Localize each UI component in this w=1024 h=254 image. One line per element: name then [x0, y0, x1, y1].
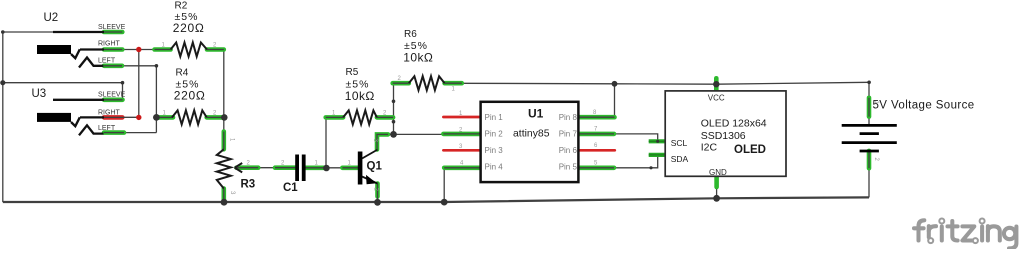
svg-text:Pin 7: Pin 7	[559, 130, 578, 139]
svg-text:Pin 2: Pin 2	[485, 130, 504, 139]
svg-text:Q1: Q1	[367, 161, 383, 173]
svg-text:LEFT: LEFT	[98, 125, 116, 132]
svg-text:RIGHT: RIGHT	[98, 40, 121, 47]
svg-text:LEFT: LEFT	[98, 57, 116, 64]
svg-text:SDA: SDA	[671, 154, 689, 164]
svg-text:U1: U1	[528, 107, 544, 121]
svg-text:attiny85: attiny85	[513, 128, 550, 140]
svg-text:RIGHT: RIGHT	[98, 110, 121, 117]
svg-text:Pin 8: Pin 8	[559, 113, 578, 122]
svg-text:R4: R4	[176, 68, 189, 79]
svg-text:220Ω: 220Ω	[173, 21, 205, 35]
svg-text:SSD1306: SSD1306	[701, 130, 746, 142]
svg-text:R3: R3	[241, 179, 256, 191]
svg-text:SCL: SCL	[671, 138, 688, 148]
svg-text:GND: GND	[709, 168, 727, 177]
svg-text:10kΩ: 10kΩ	[345, 89, 375, 103]
svg-text:VCC: VCC	[708, 93, 725, 102]
svg-text:SLEEVE: SLEEVE	[98, 91, 126, 98]
svg-text:SLEEVE: SLEEVE	[98, 24, 126, 31]
svg-text:5V Voltage Source: 5V Voltage Source	[873, 99, 975, 111]
svg-text:R6: R6	[404, 29, 417, 40]
svg-text:Pin 4: Pin 4	[485, 163, 504, 172]
svg-text:Pin 1: Pin 1	[485, 113, 504, 122]
svg-text:Pin 3: Pin 3	[485, 146, 504, 155]
svg-text:R2: R2	[175, 1, 188, 12]
svg-text:220Ω: 220Ω	[174, 89, 206, 103]
svg-text:C1: C1	[283, 182, 298, 194]
svg-text:Pin 6: Pin 6	[559, 146, 578, 155]
svg-text:U2: U2	[44, 12, 59, 24]
svg-text:OLED 128x64: OLED 128x64	[701, 117, 767, 129]
svg-text:R5: R5	[346, 67, 359, 78]
svg-text:OLED: OLED	[734, 144, 766, 156]
svg-text:U3: U3	[32, 88, 47, 100]
svg-text:I2C: I2C	[701, 141, 718, 153]
svg-text:10kΩ: 10kΩ	[403, 51, 433, 65]
svg-text:Pin 5: Pin 5	[559, 163, 578, 172]
